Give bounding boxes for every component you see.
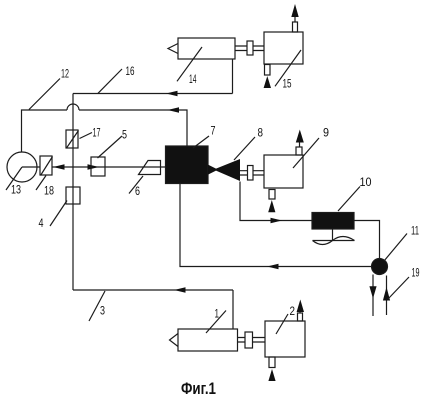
svg-text:17: 17 [93, 126, 101, 140]
wire 8 to 10 [240, 182, 312, 221]
fuel inlet arrow of 15 [264, 76, 271, 88]
leader line 13 [6, 167, 22, 190]
top stub of 2 [298, 313, 303, 321]
wire 16 horizontal [73, 93, 233, 95]
hatch of 18 [41, 157, 53, 176]
bottom stub of 9 [269, 190, 275, 200]
svg-text:14: 14 [189, 72, 197, 86]
svg-text:7: 7 [211, 124, 216, 138]
leader line 6 [129, 176, 143, 194]
compressor/engine 14 body [178, 38, 235, 59]
heat exchanger 10 [312, 213, 354, 230]
inlet cone of 14 [168, 44, 178, 54]
svg-text:10: 10 [360, 175, 372, 189]
exhaust line of 15 [294, 17, 296, 22]
leader line 3 [89, 291, 105, 321]
wedge 6 [139, 161, 161, 175]
top stub of 9 [296, 147, 302, 155]
shaft 14-15 [235, 46, 264, 51]
leader line 14 [177, 47, 202, 81]
svg-text:6: 6 [135, 184, 140, 198]
exhaust line of 9 [299, 143, 301, 148]
exhaust line of 2 [299, 309, 301, 314]
leader line 5 [98, 136, 123, 158]
turbine cone 8 [208, 159, 240, 181]
fan blade line [313, 240, 355, 242]
coupling between 1 and 2 [245, 332, 253, 348]
leader line 18 [36, 176, 46, 191]
exhaust arrow of 2 [297, 300, 304, 313]
leader line 12 [29, 79, 60, 110]
generator 15 body [264, 32, 303, 64]
fuel inlet arrow of 9 [268, 200, 275, 212]
beamsplitter 18 [40, 156, 52, 175]
top stub of 15 [293, 22, 298, 32]
generator 9 body [264, 155, 303, 188]
svg-text:4: 4 [39, 216, 44, 230]
right beam arrow [88, 164, 100, 169]
main vertical wire x=72.5 [72, 94, 74, 291]
leader line 1 [206, 311, 226, 334]
fan stem [332, 229, 334, 241]
fan blade wave [313, 237, 355, 245]
svg-text:Фиг.1: Фиг.1 [181, 380, 216, 398]
svg-text:16: 16 [126, 64, 135, 78]
svg-text:19: 19 [412, 266, 420, 280]
optical axis wire [52, 166, 166, 168]
junction node 11 [372, 259, 388, 275]
svg-text:5: 5 [122, 128, 127, 142]
filter 17 [66, 130, 78, 148]
svg-text:11: 11 [411, 224, 419, 238]
shaft 8-9 [240, 171, 264, 175]
arrow on wire 11-7 [267, 264, 279, 269]
coupling between 8 and 9 [248, 166, 254, 181]
modulator 5 [91, 157, 105, 176]
exhaust arrow of 9 [296, 130, 304, 143]
outlet line 19 left [372, 275, 374, 317]
wire 10 to 11 [354, 221, 380, 259]
svg-text:13: 13 [11, 183, 21, 197]
leader line 9 [293, 138, 319, 168]
bottom stub of 15 [265, 65, 271, 76]
exhaust arrow of 15 [291, 4, 298, 17]
engine 1 body [178, 329, 238, 351]
svg-text:8: 8 [258, 126, 264, 140]
svg-text:15: 15 [283, 77, 292, 91]
laser source circle 13 [7, 152, 37, 182]
svg-text:3: 3 [100, 304, 105, 318]
wire 3 vertical to 1 [232, 290, 234, 329]
leader line 17 [80, 133, 93, 139]
svg-text:9: 9 [323, 126, 329, 140]
arrow on wire 12 [168, 107, 180, 112]
bottom stub of 2 [269, 357, 275, 368]
leader line 11 [384, 234, 407, 262]
leader line 2 [276, 314, 288, 334]
leader line 16 [98, 69, 122, 93]
up arrow on line 19 [383, 287, 390, 301]
combustion chamber 7 [166, 146, 209, 184]
down arrow on line 19 [369, 286, 376, 298]
svg-text:2: 2 [290, 304, 296, 318]
wire 3 horizontal [73, 289, 233, 291]
leader line 19 [388, 277, 409, 299]
fuel inlet arrow of 2 [268, 369, 275, 381]
generator 2 body [265, 321, 305, 357]
wire 16 vertical from 14 [232, 59, 234, 94]
leader line 7 [193, 136, 209, 148]
leader line 10 [338, 187, 360, 212]
coupling between 14 and 15 [247, 41, 253, 55]
attenuator 4 [66, 187, 80, 204]
crossover hump on wire 12 [67, 104, 79, 110]
svg-text:12: 12 [61, 67, 69, 81]
wire 11 to 7 [180, 184, 372, 267]
shaft 1-2 [238, 338, 266, 343]
wire 12 from circle 13 [22, 110, 68, 152]
arrow on wire 3 [174, 287, 186, 292]
arrow to 10 [271, 218, 283, 223]
svg-text:1: 1 [215, 307, 220, 321]
left beam arrow [53, 164, 65, 169]
svg-text:18: 18 [44, 184, 54, 198]
leader line 8 [234, 137, 255, 160]
leader line 4 [50, 201, 67, 227]
inlet cone of 1 [170, 334, 179, 347]
wire 12 continued to 7 [79, 110, 187, 146]
arrow on wire 16 [166, 91, 178, 96]
hatch of 17 [67, 131, 79, 149]
axis line from 13 [22, 166, 40, 168]
leader line 15 [275, 50, 301, 86]
inlet line 19 right [386, 276, 388, 316]
